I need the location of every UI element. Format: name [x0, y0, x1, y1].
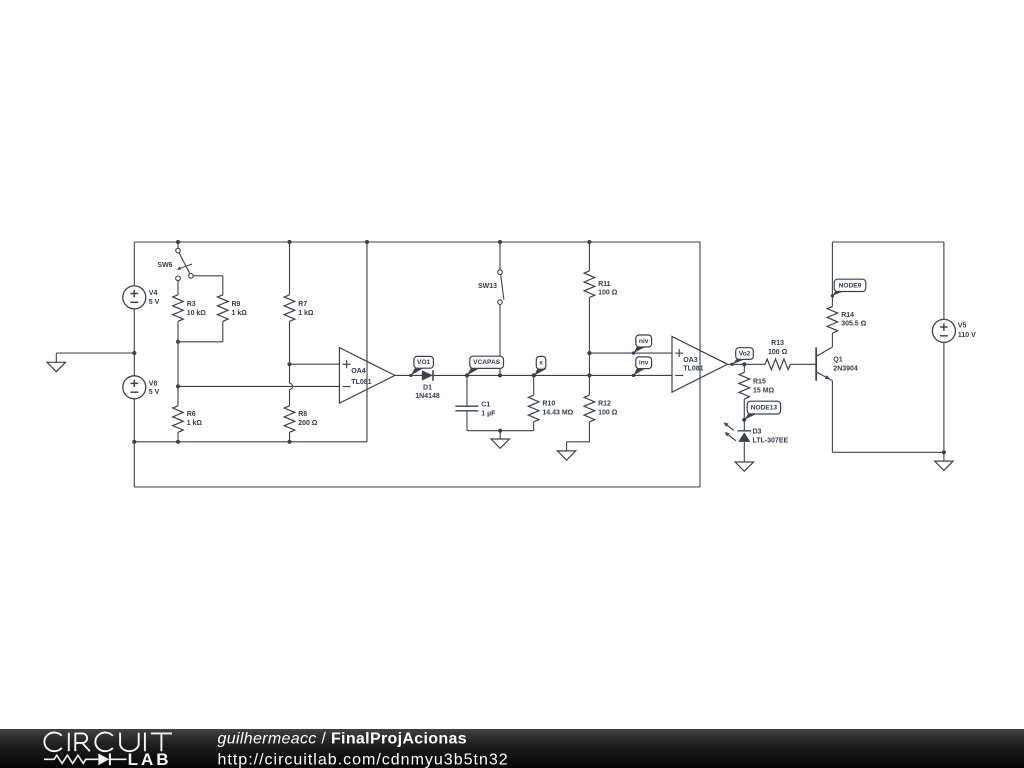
svg-text:http://circuitlab.com/cdnmyu3b: http://circuitlab.com/cdnmyu3b5tn32: [218, 751, 509, 768]
svg-text:OA4: OA4: [351, 368, 366, 375]
svg-text:Q1: Q1: [833, 356, 842, 363]
svg-text:D3: D3: [753, 428, 762, 435]
svg-text:TL081: TL081: [351, 379, 371, 386]
svg-text:5 V: 5 V: [149, 389, 160, 396]
svg-text:niv: niv: [639, 338, 649, 345]
svg-text:V6: V6: [149, 380, 158, 387]
svg-text:R3: R3: [187, 301, 196, 308]
svg-text:VO1: VO1: [417, 359, 431, 366]
svg-text:LAB: LAB: [128, 750, 172, 768]
svg-text:VCAPAS: VCAPAS: [473, 359, 501, 366]
svg-text:100 Ω: 100 Ω: [768, 349, 788, 356]
svg-text:inv: inv: [639, 360, 649, 367]
svg-text:R9: R9: [232, 301, 241, 308]
svg-text:1 kΩ: 1 kΩ: [298, 310, 314, 317]
svg-text:C1: C1: [481, 402, 490, 409]
svg-text:2N3904: 2N3904: [833, 365, 858, 372]
svg-text:R8: R8: [298, 411, 307, 418]
svg-text:100 Ω: 100 Ω: [598, 290, 618, 297]
svg-text:TL081: TL081: [683, 366, 703, 373]
svg-text:200 Ω: 200 Ω: [298, 420, 318, 427]
svg-text:LTL-307EE: LTL-307EE: [753, 438, 789, 445]
svg-text:NODE13: NODE13: [751, 405, 778, 412]
svg-text:15 MΩ: 15 MΩ: [753, 388, 775, 395]
svg-text:NODE9: NODE9: [839, 282, 862, 289]
svg-text:10 kΩ: 10 kΩ: [187, 310, 207, 317]
svg-text:R11: R11: [598, 281, 611, 288]
svg-text:R14: R14: [841, 312, 854, 319]
svg-text:14.43 MΩ: 14.43 MΩ: [542, 409, 573, 416]
svg-text:1 µF: 1 µF: [481, 410, 496, 417]
svg-text:5 V: 5 V: [149, 299, 160, 306]
svg-text:R12: R12: [598, 401, 611, 408]
svg-text:R13: R13: [771, 340, 784, 347]
svg-text:1N4148: 1N4148: [415, 393, 440, 400]
svg-text:guilhermeacc / FinalProjAciona: guilhermeacc / FinalProjAcionas: [218, 731, 467, 748]
svg-text:R6: R6: [187, 411, 196, 418]
svg-text:V5: V5: [958, 323, 967, 330]
svg-text:R10: R10: [542, 401, 555, 408]
svg-text:Vo2: Vo2: [739, 350, 751, 357]
svg-text:305.5 Ω: 305.5 Ω: [841, 321, 866, 328]
svg-text:x: x: [539, 360, 543, 367]
svg-text:100 Ω: 100 Ω: [598, 409, 618, 416]
svg-text:OA3: OA3: [683, 357, 698, 364]
svg-text:R15: R15: [753, 379, 766, 386]
svg-text:D1: D1: [423, 385, 432, 392]
svg-text:R7: R7: [298, 301, 307, 308]
svg-text:SW6: SW6: [157, 262, 172, 269]
svg-text:V4: V4: [149, 290, 158, 297]
svg-text:1 kΩ: 1 kΩ: [187, 420, 203, 427]
svg-text:110 V: 110 V: [958, 332, 976, 339]
svg-text:SW13: SW13: [478, 283, 497, 290]
svg-text:1 kΩ: 1 kΩ: [232, 310, 248, 317]
